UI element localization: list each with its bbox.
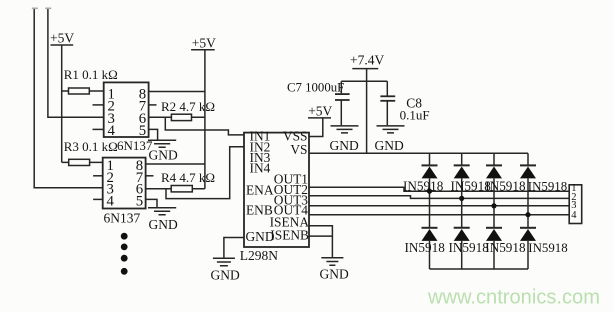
svg-text:IN5918: IN5918	[528, 179, 567, 193]
svg-text:C7 1000uF: C7 1000uF	[287, 81, 344, 95]
optocoupler U1 6N137	[93, 82, 157, 153]
connector J1	[569, 183, 582, 224]
wire ISENA / ISENB to ground	[309, 226, 332, 257]
wire U1 pin 8 to +5V	[149, 91, 205, 93]
svg-text:5: 5	[136, 193, 143, 209]
pin 4 stub	[93, 128, 104, 130]
junction node OUT4-D4	[525, 212, 530, 217]
diode D4 top IN5918	[520, 153, 536, 227]
svg-text:ISENB: ISENB	[270, 227, 309, 242]
ground under C7	[330, 126, 359, 153]
wire OUT4	[309, 214, 569, 216]
ground under U1 pin 5	[148, 129, 178, 162]
diode D8 bottom IN5918	[520, 228, 536, 269]
svg-text:GND: GND	[149, 148, 178, 163]
wire VS rail (+7.4V bus over diodes)	[309, 152, 528, 154]
wire L298N GND pin to ground	[224, 238, 244, 258]
driver U3 L298N	[240, 129, 310, 264]
svg-text:4: 4	[571, 210, 577, 221]
wire capacitor top rail	[341, 80, 387, 82]
ground under L298N GND pin	[211, 258, 240, 282]
svg-text:6N137: 6N137	[117, 138, 153, 153]
capacitor C8 0.1uF	[380, 81, 429, 125]
power +7.4V	[350, 52, 384, 153]
svg-text:GND: GND	[149, 217, 178, 232]
wire OUT3	[309, 205, 569, 207]
svg-text:GND: GND	[330, 138, 359, 153]
wire bottom rail of diodes	[430, 268, 529, 270]
capacitor C7 1000uF	[287, 81, 350, 126]
diode D2 top IN5918	[454, 153, 470, 227]
optocoupler U2 6N137	[93, 158, 153, 226]
svg-text:GND: GND	[375, 138, 404, 153]
power +5V rail 2	[191, 35, 216, 188]
diode D3 top IN5918	[486, 153, 502, 227]
wire U2 pin 8 to +5V	[146, 163, 205, 165]
svg-text:6N137: 6N137	[104, 211, 141, 226]
svg-text:0.1uF: 0.1uF	[400, 108, 430, 123]
svg-text:IN5918: IN5918	[485, 240, 526, 255]
svg-text:VS: VS	[290, 142, 307, 157]
svg-text:www.cntronics.com: www.cntronics.com	[427, 287, 600, 309]
svg-text:R2 4.7 kΩ: R2 4.7 kΩ	[161, 99, 215, 114]
svg-text:IN5918: IN5918	[449, 240, 490, 255]
diode D7 bottom IN5918	[486, 228, 502, 269]
power +5V rail 3 (to VSS)	[308, 104, 333, 137]
junction node OUT3-D3	[491, 203, 496, 208]
junction node OUT1-D1	[427, 189, 432, 194]
ellipsis dots	[121, 233, 128, 275]
wire input A (left vertical to U2 pin 3)	[32, 8, 103, 187]
svg-text:IN5918: IN5918	[403, 178, 444, 193]
svg-text:IN4: IN4	[250, 160, 271, 175]
svg-text:+5V: +5V	[192, 35, 216, 50]
pin 2 stub	[93, 175, 103, 177]
resistor R3 0.1k	[62, 139, 118, 166]
ground under C8	[375, 126, 405, 153]
svg-text:GND: GND	[211, 268, 240, 283]
svg-text:R4 4.7 kΩ: R4 4.7 kΩ	[161, 170, 215, 185]
wire U1 output (pin 6) to L298N IN1	[165, 117, 244, 135]
svg-text:IN5918: IN5918	[405, 240, 446, 255]
pin 2 stub	[93, 104, 104, 106]
resistor R4 4.7k	[146, 170, 215, 192]
wire U2 output (pin 6) to L298N IN2	[166, 147, 244, 199]
svg-text:GND: GND	[320, 267, 349, 282]
power +5V rail 1	[50, 31, 74, 163]
wire OUT1	[309, 187, 569, 191]
pin 4 stub	[93, 198, 103, 200]
junction node OUT2-D2	[459, 196, 464, 201]
pin 7 stub	[149, 104, 157, 106]
pin 7 stub	[146, 175, 154, 177]
wire input B (second vertical to U1 pin 3)	[45, 8, 103, 117]
diode D5 bottom IN5918	[422, 228, 438, 269]
svg-text:R3 0.1 kΩ: R3 0.1 kΩ	[64, 139, 118, 154]
ground under ISEN pins	[320, 258, 349, 282]
svg-text:+5V: +5V	[308, 104, 332, 119]
svg-text:IN5918: IN5918	[528, 241, 567, 255]
ground under U2 pin 5	[146, 199, 178, 232]
wire OUT2	[309, 196, 569, 199]
diode D6 bottom IN5918	[454, 228, 470, 269]
svg-text:IN5918: IN5918	[485, 178, 526, 193]
svg-text:ENA: ENA	[246, 183, 274, 198]
resistor R1 0.1k	[62, 67, 118, 94]
resistor R2 4.7k	[149, 99, 215, 121]
diode D1 top IN5918	[422, 153, 438, 227]
svg-text:4: 4	[108, 123, 116, 139]
svg-text:+5V: +5V	[50, 31, 74, 46]
svg-text:R1 0.1 kΩ: R1 0.1 kΩ	[64, 67, 118, 82]
svg-text:5: 5	[139, 123, 146, 139]
svg-text:4: 4	[107, 193, 115, 209]
svg-text:+7.4V: +7.4V	[350, 52, 384, 67]
svg-text:L298N: L298N	[240, 248, 278, 263]
